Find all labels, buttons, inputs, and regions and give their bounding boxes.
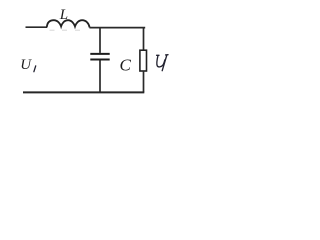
wire capacitor top lead [99, 28, 101, 53]
wire top-left input stub [26, 26, 48, 28]
wire right vertical lower (resistor to bottom) [143, 71, 145, 92]
inductor core faint dashes [50, 29, 81, 31]
svg-text:L: L [59, 7, 68, 23]
svg-text:C: C [120, 56, 132, 75]
label U1 (input voltage) [20, 57, 35, 73]
label L [59, 7, 68, 23]
wire top from inductor to right corner [89, 27, 145, 29]
wire bottom [23, 91, 144, 93]
label U (output voltage) [157, 55, 168, 71]
capacitor C plates [90, 54, 109, 60]
svg-text:U: U [20, 57, 32, 73]
wire right vertical upper (to resistor) [143, 28, 145, 51]
resistor (load) [140, 50, 147, 71]
inductor L [47, 20, 90, 27]
label C [120, 56, 132, 75]
wire capacitor bottom lead [99, 60, 101, 92]
